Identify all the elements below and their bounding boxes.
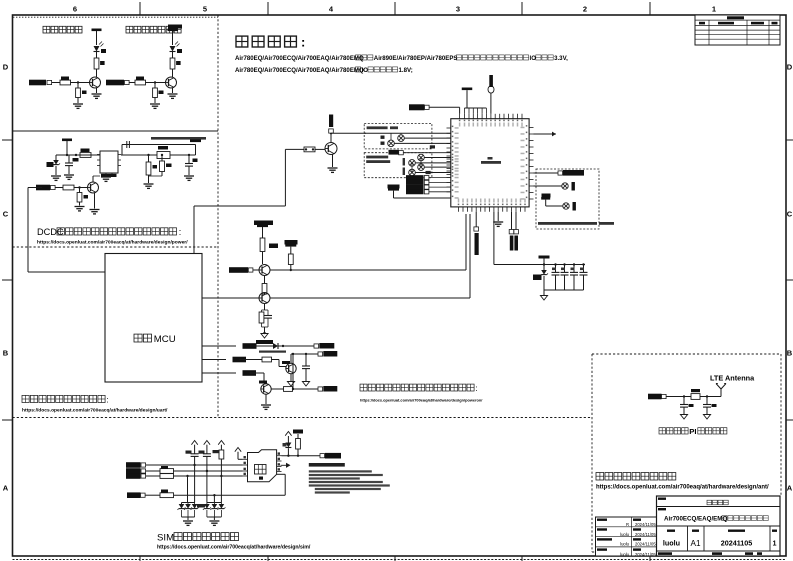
PI matching caption — [659, 427, 727, 436]
svg-text:2: 2 — [583, 5, 587, 14]
VDD_EXT power bar to chip — [388, 185, 451, 199]
note title 特别提醒: — [236, 35, 305, 50]
label 运行状态指示灯 — [126, 26, 181, 33]
indicator 1 base network R + pulldown + net NETLED — [29, 77, 90, 109]
Q5 RC to ground + PWRKEY label — [256, 304, 273, 345]
indicator circuit 1 LED/resistor/transistor Q1 — [90, 29, 107, 99]
serial guide URL — [22, 408, 168, 414]
svg-text:Air890E/Air780EP/Air780EPS: Air890E/Air780EP/Air780EPS — [374, 55, 458, 62]
Q7 base resistor + terminal + gnd — [261, 354, 337, 409]
note line 1 — [235, 55, 568, 62]
dashed box LED indication + caption — [536, 169, 614, 229]
transistor Q7 — [259, 381, 271, 395]
LED row 2 — [563, 202, 576, 211]
svg-text:B: B — [787, 349, 793, 358]
VBAT power bar + bus — [494, 212, 585, 266]
svg-text::: : — [179, 227, 182, 237]
svg-text:B: B — [3, 349, 9, 358]
enable base resistor + pulldown + net label — [36, 185, 88, 211]
svg-text:Air780EQ/Air700ECQ/Air700EAQ/A: Air780EQ/Air700ECQ/Air700EAQ/Air780EMQ — [235, 55, 364, 62]
svg-text:luolu: luolu — [620, 552, 630, 557]
SIM VDD loop wire — [174, 474, 285, 495]
svg-text:https://docs.openluat.com/air7: https://docs.openluat.com/air700eaq/at/h… — [596, 485, 769, 491]
svg-text:DCDC: DCDC — [37, 227, 64, 237]
wire row B to chip — [270, 214, 470, 298]
row D wire + resistor R13 — [202, 357, 286, 367]
svg-text:D: D — [3, 63, 9, 72]
USB LED D4 — [381, 133, 451, 146]
row E wire + label — [202, 370, 264, 383]
SIM row3 label+R+wire — [126, 473, 243, 479]
DCDC input power bar VBUS + input rail — [56, 139, 100, 157]
wire MCU row B — [202, 297, 259, 299]
svg-text:2024/11/05: 2024/11/05 — [635, 522, 656, 527]
junction arrow box1 — [430, 145, 435, 148]
SIM row4 label+R — [127, 490, 174, 499]
svg-text:3: 3 — [456, 5, 460, 14]
input cap C1 — [64, 155, 79, 179]
pullup VDD2 + resistor R11 — [285, 240, 298, 271]
resistor R12 between Q4 Q5 — [262, 276, 267, 295]
output inductor L1 + rail — [121, 146, 196, 159]
svg-text:https://docs.openluat.com/air7: https://docs.openluat.com/air700eacq/at/… — [37, 240, 188, 246]
svg-text:A1: A1 — [690, 539, 700, 548]
chip top power bus VBAT — [462, 88, 487, 114]
antenna guide title — [596, 473, 676, 481]
power-on guide title — [360, 384, 477, 393]
decoupling caps C6-C9 — [552, 263, 588, 290]
transistor Q5 — [259, 293, 270, 304]
block separator dashed vertical x=218 — [217, 15, 219, 418]
transistor Q8 — [325, 143, 337, 155]
rotated ref text — [403, 158, 405, 175]
TVS diode D2 — [533, 265, 548, 291]
svg-text:1: 1 — [773, 539, 777, 548]
USIM_DET pullup/diode + terminal — [282, 430, 342, 459]
svg-text:https://docs.openluat.com/air7: https://docs.openluat.com/air700eaq/at/h… — [360, 398, 483, 403]
rotated net label USB_BOOT — [474, 212, 479, 255]
Q6 collector to RESET terminal + cap C5 — [287, 351, 337, 386]
power bar in LED box — [541, 194, 563, 207]
top-left block dotted top edge — [13, 16, 218, 18]
svg-text:C: C — [787, 210, 793, 219]
antenna guide URL — [596, 485, 769, 491]
zener D1 on input — [47, 155, 62, 180]
wire MCU pin to VBUS detect — [194, 149, 285, 253]
UART1 net labels to chip — [406, 175, 451, 194]
dashed box UART download + caption — [364, 153, 432, 178]
transistor Q4 — [259, 265, 270, 276]
block separator dashed under DCDC block — [13, 246, 219, 248]
main module U1 — [447, 114, 534, 212]
svg-text:C: C — [3, 210, 9, 219]
feedback resistor R_fb1 — [144, 154, 158, 189]
VOUT annotation text — [151, 137, 206, 140]
USB LED D3 — [381, 133, 451, 141]
wire USB VBUS — [364, 132, 451, 134]
series resistor R_in — [80, 149, 91, 158]
feedback cap C2 path — [122, 141, 196, 155]
svg-text:SIM: SIM — [157, 533, 174, 544]
DCDC converter IC U2 — [97, 151, 121, 181]
SIM guide URL — [157, 545, 311, 551]
SIM pin arrow — [281, 463, 291, 468]
RF_ANT label + series matching L — [648, 389, 721, 399]
antenna symbol — [716, 384, 726, 397]
output cap C3 — [184, 154, 198, 181]
SIM gnd-up pin — [235, 448, 243, 460]
svg-text::: : — [301, 35, 305, 50]
transistor Q6 — [282, 361, 296, 374]
arrow wire right of chip — [534, 132, 557, 137]
svg-text:LTE Antenna: LTE Antenna — [710, 374, 755, 383]
svg-text:3.3V,: 3.3V, — [554, 55, 568, 62]
serial port guide title — [22, 395, 109, 405]
svg-text:PI: PI — [689, 427, 696, 436]
svg-text:luolu: luolu — [620, 532, 630, 537]
net label to chip top pin — [409, 104, 460, 114]
enable transistor Q3 — [88, 176, 101, 193]
dashed box USB reserve + caption — [364, 123, 432, 148]
svg-text:Air700ECQ/EAQ/EMQ: Air700ECQ/EAQ/EMQ — [664, 516, 727, 523]
title block — [657, 496, 781, 556]
cap bank ground — [540, 290, 583, 300]
SIM row2 label+R+wire — [126, 466, 243, 474]
svg-text:5: 5 — [203, 5, 207, 14]
wire fb join — [149, 175, 163, 177]
note line 2 — [235, 67, 413, 74]
revision history table — [695, 15, 780, 45]
LED row 1 — [534, 182, 575, 191]
主控MCU text — [134, 334, 176, 345]
chip bottom ground — [493, 212, 503, 227]
SIM guide title — [157, 533, 239, 544]
AFLAG net label — [389, 150, 451, 155]
pullup VDD + resistor R10 — [254, 221, 278, 265]
row C PWRKEY diode + terminal — [202, 343, 334, 353]
main MCU box — [105, 254, 202, 383]
VBUS detect base resistor R14 — [285, 147, 325, 152]
svg-text:6: 6 — [73, 5, 77, 14]
Q8 emitter ground — [328, 155, 338, 173]
power-on guide URL — [360, 398, 483, 403]
LTE Antenna text — [710, 374, 755, 383]
svg-text:R: R — [626, 522, 629, 527]
svg-text:2024/11/05: 2024/11/05 — [635, 552, 656, 557]
antenna block dashed box — [592, 354, 781, 552]
svg-text:luolu: luolu — [620, 542, 630, 547]
enable transistor emitter ground — [90, 193, 100, 214]
svg-text:1.8V;: 1.8V; — [399, 67, 413, 74]
svg-text:IO: IO — [530, 55, 537, 62]
output power bar VDD — [190, 140, 201, 143]
svg-text:Air780EQ/Air700ECQ/Air700EAQ/A: Air780EQ/Air700ECQ/Air700EAQ/Air780EMQ — [235, 67, 364, 74]
svg-text:1: 1 — [712, 5, 716, 14]
svg-text:https://docs.openluat.com/air7: https://docs.openluat.com/air700eacq/at/… — [22, 408, 168, 414]
USIM_DET usage note text — [309, 463, 390, 494]
PI cap C11 — [703, 395, 717, 419]
wire enable net to MCU — [28, 188, 105, 273]
svg-text:https://docs.openluat.com/air7: https://docs.openluat.com/air700eacq/at/… — [157, 545, 311, 551]
svg-text:D: D — [787, 63, 793, 72]
two bottom terminals with rotated labels — [509, 212, 518, 251]
svg-text::: : — [475, 384, 477, 393]
svg-text:2024/11/05: 2024/11/05 — [635, 542, 656, 547]
PI cap C10 — [680, 395, 694, 419]
wire row A to chip — [270, 214, 466, 270]
svg-text:A: A — [3, 484, 9, 493]
approval table — [596, 517, 657, 557]
block separator solid line under indicator block — [13, 130, 219, 132]
indicator circuit 2 LED/resistor/transistor Q2 — [166, 25, 183, 99]
svg-text:IO: IO — [362, 67, 369, 74]
label 网络指示灯 — [43, 26, 82, 33]
svg-text:20241105: 20241105 — [721, 539, 753, 548]
DCDC guide URL — [37, 240, 188, 246]
svg-text:2024/11/05: 2024/11/05 — [635, 532, 656, 537]
Q8 collector + VBAT rotated label + wire to USB box — [329, 115, 366, 143]
net label row A + wire — [229, 267, 259, 273]
indicator 2 base network R + pulldown + net STATUS — [106, 77, 166, 109]
right net label row — [534, 170, 585, 176]
svg-text:luolu: luolu — [663, 539, 680, 548]
SIM ESD TVS arrays + grounds — [178, 465, 226, 525]
DCDC design guide title text — [37, 227, 181, 237]
SIM card connector J1 — [243, 450, 282, 482]
chip top net circle symbol — [488, 75, 494, 114]
svg-text:MCU: MCU — [154, 334, 176, 345]
svg-text::: : — [106, 395, 108, 405]
download LEDs TP3-TP6 — [409, 154, 451, 176]
SIM pullup caps/resistor branches — [186, 441, 225, 478]
feedback resistor R_fb2 — [160, 154, 172, 176]
svg-text:A: A — [787, 484, 793, 493]
block separator dashed above SIM block — [13, 417, 593, 419]
SIM row1 label+wire — [126, 462, 243, 468]
